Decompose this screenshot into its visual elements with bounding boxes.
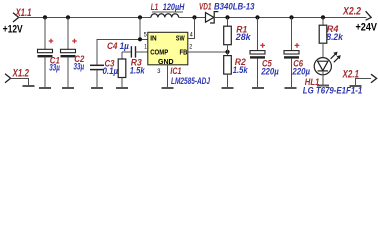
svg-text:C4: C4	[107, 40, 118, 51]
svg-text:3: 3	[157, 68, 160, 75]
svg-text:1: 1	[144, 44, 147, 51]
ground (C1)	[39, 87, 51, 89]
svg-text:5: 5	[144, 31, 147, 38]
svg-text:33µ: 33µ	[49, 62, 60, 73]
connector X2.1	[371, 74, 377, 83]
capacitor C4	[122, 51, 131, 53]
node FB junction	[225, 50, 229, 54]
inductor L1	[151, 14, 179, 18]
LED emission arrows	[331, 52, 341, 63]
capacitor C6	[291, 17, 293, 50]
svg-text:FB: FB	[180, 48, 188, 57]
ground (X2.1)	[350, 85, 362, 87]
wire IN node riser	[139, 17, 141, 39]
LED HL1	[322, 43, 324, 58]
ground (C3)	[91, 87, 103, 89]
svg-text:+24V: +24V	[356, 22, 378, 34]
junction dots on top rail	[43, 15, 47, 19]
ground (R3)	[116, 87, 128, 89]
svg-text:4: 4	[190, 32, 193, 39]
ground (C2)	[62, 87, 74, 89]
wire SW pin riser	[188, 17, 195, 38]
svg-text:X2.1: X2.1	[342, 68, 359, 80]
svg-text:IN: IN	[150, 34, 156, 43]
resistor R3	[121, 52, 123, 59]
capacitor C2	[67, 17, 69, 49]
connector X1.1	[13, 13, 19, 22]
svg-text:COMP: COMP	[150, 48, 168, 57]
svg-text:1.5k: 1.5k	[130, 64, 145, 75]
svg-text:2: 2	[189, 43, 192, 50]
svg-text:SW: SW	[176, 34, 185, 43]
wire top rail left: X1.1 to L1	[19, 16, 151, 18]
resistor R1	[227, 17, 229, 26]
svg-text:L1: L1	[151, 1, 158, 12]
capacitor C3	[90, 64, 104, 66]
connector X2.2	[366, 11, 372, 20]
diode VD1 (Schottky)	[206, 12, 219, 23]
svg-text:X1.2: X1.2	[12, 67, 29, 79]
ground (IC1 GND)	[162, 87, 174, 89]
svg-text:VD1: VD1	[199, 1, 212, 12]
svg-text:220µ: 220µ	[260, 66, 279, 77]
svg-text:0.1µ: 0.1µ	[103, 65, 119, 76]
wire FB pin to divider node	[188, 51, 228, 53]
capacitor C1	[44, 17, 46, 49]
resistor R4	[322, 17, 324, 25]
ground (HL1)	[317, 85, 329, 87]
node IN junction	[138, 37, 142, 41]
wire L1 to diode node	[179, 16, 206, 18]
svg-text:1µ: 1µ	[120, 40, 130, 51]
ground (X1.2)	[23, 85, 35, 87]
wire C3 top to IN pin	[97, 39, 148, 64]
wire diode to X2.2 rail	[214, 16, 366, 18]
svg-text:8.2k: 8.2k	[326, 31, 343, 42]
svg-text:X2.2: X2.2	[342, 6, 361, 18]
svg-text:33µ: 33µ	[74, 61, 85, 72]
op-amp/regulator IC1 LM2585-ADJ box	[148, 32, 188, 65]
capacitor C5	[257, 17, 259, 50]
connector X1.2	[5, 74, 11, 83]
svg-text:120µH: 120µH	[163, 1, 185, 12]
ground (R2)	[222, 87, 234, 89]
svg-text:+12V: +12V	[3, 23, 23, 35]
wire GND pin 3	[167, 65, 169, 87]
svg-text:28k: 28k	[235, 31, 251, 42]
resistor R2	[227, 52, 229, 56]
svg-text:LM2585-ADJ: LM2585-ADJ	[171, 75, 211, 86]
ground (C5)	[252, 87, 264, 89]
ground (C6)	[284, 87, 296, 89]
svg-text:B340LB-13: B340LB-13	[214, 1, 255, 12]
svg-text:1.5k: 1.5k	[233, 64, 248, 75]
